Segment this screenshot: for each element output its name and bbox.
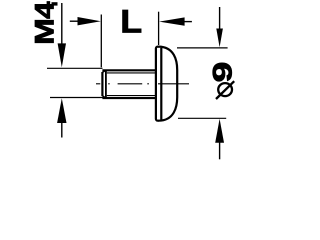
thread root line bottom: [107, 95, 156, 97]
M4 extension line bottom: [50, 97, 103, 99]
chamfer vertical line: [105, 71, 107, 98]
svg-text:L: L: [120, 4, 142, 40]
shaft bottom edge: [102, 97, 155, 99]
svg-text:M: M: [30, 18, 60, 45]
chamfer diagonal top: [102, 70, 106, 72]
L dim: left extension line: [100, 15, 102, 68]
M4 down arrow: [58, 3, 66, 67]
L dim: right arrow: [159, 17, 192, 25]
head face line: [156, 47, 159, 119]
Ø9 top extension line: [177, 47, 228, 49]
thread root line top: [107, 72, 156, 74]
shaft end face: [101, 72, 103, 96]
chamfer diagonal bottom: [102, 96, 106, 98]
shaft top edge: [102, 69, 155, 71]
Ø9 bottom arrow (up): [215, 119, 224, 160]
svg-text:4: 4: [30, 1, 60, 19]
M4 up arrow: [57, 98, 66, 137]
M4 extension line top: [47, 67, 103, 69]
4 stem overshoot: [52, 2, 58, 5]
head dome silhouette: [159, 47, 178, 121]
L dim: left arrow: [70, 17, 101, 25]
Ø symbol (drawn): [216, 81, 234, 99]
head rim line: [160, 48, 162, 120]
svg-text:9: 9: [208, 62, 238, 83]
Ø9 bottom extension line: [178, 117, 226, 119]
Ø9 top arrow (down): [216, 7, 223, 47]
axis center line (dash-dot): [96, 83, 189, 85]
L dim: right extension line: [158, 12, 160, 45]
